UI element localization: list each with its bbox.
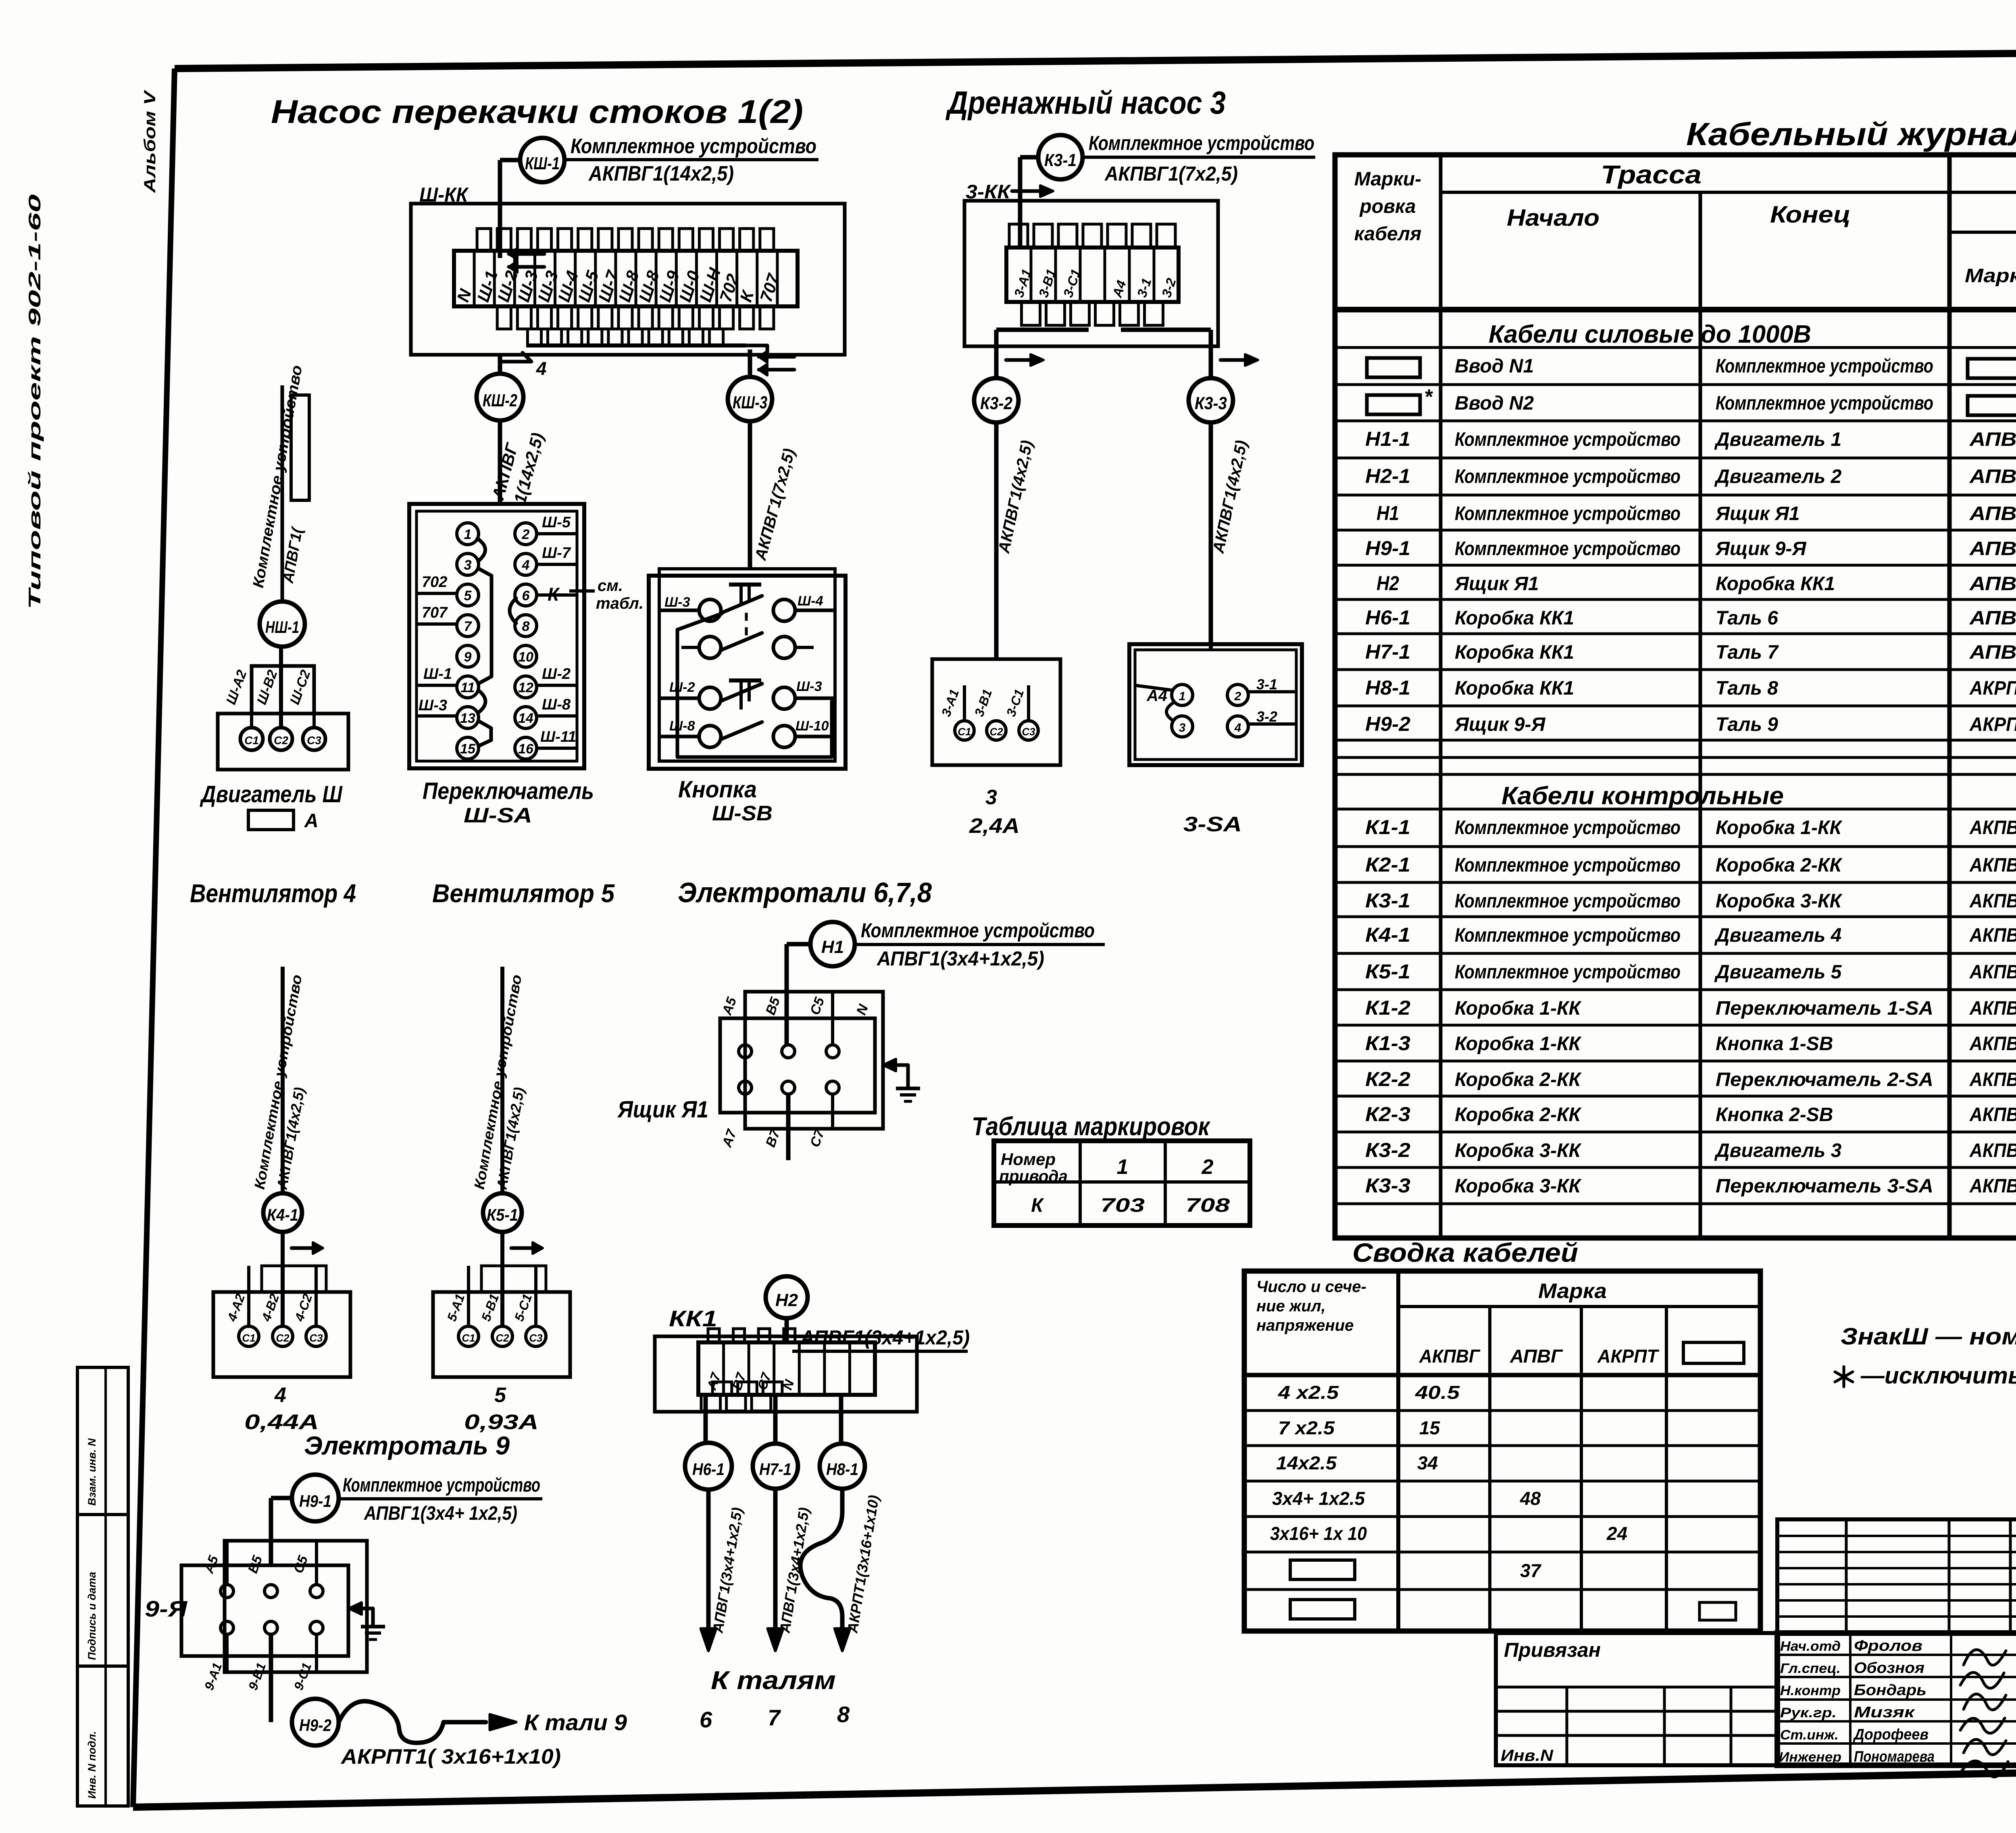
wire Н9-2 to hoist 9 [339, 1701, 627, 1743]
label 9-Я [145, 1596, 187, 1621]
svg-text:Н1: Н1 [821, 937, 844, 957]
svg-text:4: 4 [522, 558, 530, 573]
svg-text:5: 5 [494, 1384, 506, 1407]
cable marker Н2 [766, 1276, 808, 1318]
svg-text:Комплектное устройство: Комплектное устройство [861, 919, 1095, 942]
svg-text:Комплектное устройство: Комплектное устройство [1716, 356, 1933, 377]
svg-text:9-Я: 9-Я [145, 1596, 187, 1621]
switch Ш-SA bridges [477, 539, 516, 746]
marking table grid [994, 1141, 1250, 1225]
svg-text:2: 2 [1202, 1155, 1214, 1179]
cable marker KSH-2 [477, 374, 523, 420]
svg-text:Ящик Я1: Ящик Я1 [617, 1096, 708, 1123]
switch Ш-SA right taps [537, 514, 644, 748]
svg-text:Вентилятор 5: Вентилятор 5 [432, 879, 615, 908]
svg-text:Кнопка: Кнопка [678, 776, 757, 803]
svg-text:Ш-3: Ш-3 [419, 697, 447, 714]
svg-text:А: А [304, 810, 319, 832]
svg-text:Коробка 3-КК: Коробка 3-КК [1455, 1176, 1582, 1197]
motor Ш terminals [240, 728, 325, 750]
svg-text:К тали 9: К тали 9 [524, 1710, 627, 1735]
svg-text:707: 707 [422, 604, 448, 621]
wire to hoist 7 with arrow [768, 1490, 812, 1651]
cable label АКРПТ1 [340, 1745, 561, 1769]
svg-text:К3-2: К3-2 [1365, 1139, 1410, 1161]
svg-text:К2-2: К2-2 [1365, 1068, 1410, 1090]
stamp boxes column [77, 1367, 128, 1806]
svg-text:Кабели контрольные: Кабели контрольные [1502, 782, 1784, 810]
svg-text:Н9-1: Н9-1 [299, 1492, 331, 1511]
svg-text:Коробка КК1: Коробка КК1 [1716, 573, 1835, 595]
svg-text:АКПВГ1(7х2,5): АКПВГ1(7х2,5) [1104, 162, 1238, 185]
svg-text:С2: С2 [274, 734, 288, 747]
arrow at К3-2 wire [1006, 354, 1043, 366]
svg-text:Двигатель Ш: Двигатель Ш [200, 781, 343, 807]
svg-text:ровка: ровка [1359, 196, 1416, 217]
svg-text:Фролов: Фролов [1854, 1637, 1922, 1654]
svg-text:Ввод N2: Ввод N2 [1455, 393, 1534, 414]
switch Ш-SA left taps [417, 574, 457, 716]
svg-text:привода: привода [999, 1167, 1068, 1186]
svg-text:Конец: Конец [1770, 202, 1851, 228]
svg-text:6: 6 [522, 588, 530, 603]
cable marker Н9-1 [292, 1475, 339, 1521]
signature rows [1777, 1633, 2016, 1765]
svg-text:К4-1: К4-1 [1365, 924, 1410, 946]
svg-text:Ш-4: Ш-4 [798, 593, 823, 609]
svg-text:Н9-2: Н9-2 [299, 1716, 331, 1735]
svg-text:Комплектное устройство: Комплектное устройство [1455, 429, 1681, 450]
cable label АПВГ1 under Н2 [792, 1326, 970, 1351]
wire К3-1 to cabinet [1020, 157, 1039, 248]
svg-text:Инв.N: Инв.N [1501, 1747, 1554, 1764]
signature names [1779, 1637, 1935, 1765]
svg-text:1: 1 [1179, 690, 1186, 703]
svg-text:Дорофеев: Дорофеев [1853, 1726, 1929, 1743]
svg-text:АПВГ: АПВГ [1969, 573, 2016, 595]
svg-text:АПВГ: АПВГ [1969, 429, 2016, 450]
svg-text:К3-2: К3-2 [980, 393, 1012, 413]
cable marker НШ-1 [260, 601, 305, 647]
svg-text:АПВГ: АПВГ [1969, 503, 2016, 524]
table title Кабельный журнал [1686, 116, 2016, 152]
section title hoist 9 [304, 1431, 510, 1460]
wire KSH-2 to switch SA [498, 354, 502, 505]
wires КК1 to hoist markers [706, 1395, 841, 1443]
svg-text:С3: С3 [309, 1332, 323, 1344]
svg-text:Комплектное устройство: Комплектное устройство [1455, 855, 1681, 876]
button Ш-SB jumper loop [677, 614, 832, 757]
svg-text:Н7-1: Н7-1 [1365, 641, 1410, 663]
svg-text:К3-1: К3-1 [1044, 150, 1077, 170]
svg-text:Дренажный насос 3: Дренажный насос 3 [946, 85, 1226, 121]
label 3-КК with arrow [966, 181, 1053, 203]
wire 3-SA feed [1209, 644, 1213, 650]
button Ш-SB contacts [699, 596, 795, 747]
svg-text:34: 34 [1417, 1452, 1438, 1473]
cable marker Н1 [810, 922, 855, 966]
svg-text:Н9-2: Н9-2 [1365, 713, 1410, 735]
svg-text:С2: С2 [989, 726, 1003, 738]
svg-text:Коробка 3-КК: Коробка 3-КК [1455, 1140, 1582, 1161]
svg-text:Ш-11: Ш-11 [540, 728, 576, 745]
svg-text:Н9-1: Н9-1 [1365, 537, 1410, 560]
svg-text:15: 15 [1419, 1417, 1441, 1438]
journal table grid [1335, 155, 2016, 1238]
margin caption Album V [141, 89, 159, 193]
wire to hoist 6 with arrow [701, 1490, 746, 1651]
cable marker К5-1 [483, 1193, 522, 1232]
svg-text:3: 3 [985, 786, 997, 809]
svg-text:Пономарева: Пономарева [1854, 1748, 1935, 1765]
svg-text:24: 24 [1606, 1523, 1627, 1544]
svg-text:3-1: 3-1 [1256, 676, 1277, 693]
terminal strip in 3-КК [1006, 224, 1179, 325]
svg-text:Вентилятор 4: Вентилятор 4 [190, 879, 356, 908]
branch tick with mark 4 [500, 353, 547, 379]
svg-text:С2: С2 [276, 1332, 289, 1344]
Ящик Я1 top leads [719, 992, 871, 1045]
svg-text:*: * [1424, 385, 1433, 409]
svg-text:Переключатель: Переключатель [423, 778, 594, 804]
svg-text:14: 14 [518, 711, 533, 726]
cable entry arrows at KSH-3 wire [759, 351, 794, 375]
svg-text:Н.контр: Н.контр [1780, 1683, 1841, 1698]
svg-text:АКПВГ1(14х2,5): АКПВГ1(14х2,5) [588, 162, 734, 185]
svg-text:КШ-3: КШ-3 [733, 393, 767, 412]
9-Я bottom leads [202, 1634, 317, 1722]
svg-text:АКПВГ: АКПВГ [1969, 1069, 2016, 1090]
fan 5 motor box [433, 1292, 570, 1377]
svg-text:Ш-8: Ш-8 [542, 696, 571, 713]
svg-text:Переключатель 1-SA: Переключатель 1-SA [1716, 998, 1933, 1019]
svg-text:Ш-2: Ш-2 [669, 680, 695, 695]
label 3-SA [1183, 813, 1242, 836]
label Кнопка Ш-SB [678, 776, 773, 825]
label Ящик Я1 [617, 1096, 708, 1123]
svg-text:Коробка 2-КК: Коробка 2-КК [1716, 855, 1843, 876]
svg-text:Привязан: Привязан [1504, 1639, 1601, 1661]
terminal cabinet 3-КК box [964, 201, 1218, 346]
wire Н1 to Ящик Я1 [787, 944, 810, 1045]
svg-text:Коробка 1-КК: Коробка 1-КК [1455, 998, 1582, 1019]
svg-text:Бондарь: Бондарь [1854, 1682, 1926, 1699]
svg-text:АКПВГ: АКПВГ [1969, 855, 2016, 876]
svg-text:АПВГ: АПВГ [1969, 642, 2016, 663]
summary table grid [1244, 1271, 1760, 1631]
svg-text:Число и сече-: Число и сече- [1256, 1278, 1366, 1296]
svg-text:10: 10 [518, 649, 533, 665]
feeder stub fan 5 [471, 967, 528, 1193]
svg-text:АКПВГ: АКПВГ [1969, 961, 2016, 983]
journal table headers [1354, 159, 2016, 326]
svg-text:К: К [548, 584, 560, 605]
svg-text:С2: С2 [496, 1332, 509, 1344]
cable label on К3-2 wire [995, 439, 1036, 555]
table title Сводка кабелей [1352, 1238, 1578, 1267]
cable marker Н9-2 [292, 1699, 339, 1746]
cable marker К3-3 [1189, 378, 1233, 422]
svg-text:КШ-2: КШ-2 [483, 391, 517, 410]
svg-text:2,4А: 2,4А [969, 814, 1020, 838]
motor Ш leads [223, 647, 314, 728]
svg-text:Кабели силовые до 1000В: Кабели силовые до 1000В [1489, 320, 1811, 348]
svg-text:Номер: Номер [1001, 1150, 1056, 1169]
svg-text:Ввод N1: Ввод N1 [1455, 356, 1534, 377]
wire Н9-1 to box 9-Я [271, 1498, 292, 1564]
svg-text:2: 2 [1234, 690, 1241, 703]
cable marker KSH-3 [728, 377, 772, 421]
svg-text:6: 6 [700, 1707, 712, 1732]
svg-text:Кнопка 1-SB: Кнопка 1-SB [1716, 1033, 1833, 1055]
svg-text:АПВГ1(3х4+1х2,5): АПВГ1(3х4+1х2,5) [876, 947, 1044, 970]
svg-text:703: 703 [1100, 1195, 1145, 1216]
svg-text:К2-1: К2-1 [1365, 853, 1410, 876]
svg-text:Н1-1: Н1-1 [1365, 428, 1410, 450]
svg-text:7: 7 [768, 1705, 781, 1730]
journal section power cables [1489, 320, 1811, 348]
svg-text:КШ-1: КШ-1 [525, 154, 560, 173]
motor 3 terminals [955, 721, 1038, 740]
svg-text:С1: С1 [244, 734, 259, 747]
svg-text:Комплектное устройство: Комплектное устройство [1089, 132, 1314, 154]
svg-text:3: 3 [464, 558, 472, 573]
svg-text:Ш-SB: Ш-SB [712, 802, 773, 825]
fan 4 rating [244, 1384, 319, 1434]
svg-text:напряжение: напряжение [1256, 1317, 1354, 1334]
svg-text:Электроталь 9: Электроталь 9 [304, 1431, 510, 1460]
svg-text:Типовой проект 902-1-60: Типовой проект 902-1-60 [25, 194, 44, 610]
svg-text:Ш-2: Ш-2 [542, 666, 571, 682]
button Ш-SB box [649, 569, 846, 769]
svg-text:АКПВГ: АКПВГ [1419, 1346, 1481, 1367]
wire К3-2 to motor 3 [994, 422, 999, 659]
svg-text:АПВГ: АПВГ [1969, 466, 2016, 487]
svg-text:708: 708 [1185, 1195, 1230, 1216]
svg-text:С3: С3 [1022, 726, 1035, 738]
svg-text:Комплектное устройство: Комплектное устройство [1455, 890, 1681, 912]
selector 3-SA taps [1135, 676, 1296, 725]
selector 3-SA bridge [1166, 702, 1174, 721]
svg-text:—исключить при питании по: —исключить при питании по одному вводу [1860, 1363, 2016, 1389]
svg-text:К талям: К талям [711, 1666, 836, 1695]
svg-text:Ящик Я1: Ящик Я1 [1454, 573, 1539, 595]
svg-text:1: 1 [464, 527, 472, 542]
svg-text:Комплектное устройство: Комплектное устройство [571, 135, 816, 158]
svg-text:3х4+ 1х2.5: 3х4+ 1х2.5 [1272, 1488, 1365, 1509]
svg-text:АКПВГ: АКПВГ [1969, 890, 2016, 912]
motor Ш frame mark [248, 810, 319, 832]
svg-text:7: 7 [464, 619, 473, 634]
svg-text:Н2-1: Н2-1 [1365, 465, 1410, 487]
journal table data [1365, 356, 2016, 1197]
svg-text:Коробка 3-КК: Коробка 3-КК [1716, 890, 1843, 912]
svg-text:Комплектное устройство: Комплектное устройство [1455, 961, 1681, 983]
svg-text:С3: С3 [307, 734, 321, 747]
svg-text:Комплектное устройство: Комплектное устройство [1455, 538, 1681, 560]
svg-text:Таль 6: Таль 6 [1716, 608, 1778, 629]
button Ш-SB leads [659, 610, 835, 737]
svg-text:702: 702 [422, 574, 447, 591]
svg-text:Ст.инж.: Ст.инж. [1780, 1727, 1839, 1743]
motor 3 box [932, 659, 1060, 765]
svg-text:АКПВГ: АКПВГ [1969, 1176, 2016, 1197]
label Ш-КК [419, 183, 469, 206]
svg-text:Инв. N подл.: Инв. N подл. [86, 1731, 98, 1799]
svg-text:Коробка 1-КК: Коробка 1-КК [1716, 817, 1843, 838]
svg-text:Н8-1: Н8-1 [1365, 676, 1410, 699]
svg-text:4: 4 [1234, 721, 1241, 734]
terminal strip in КК1 [698, 1329, 875, 1411]
fan 5 rating [464, 1384, 539, 1434]
svg-text:4: 4 [536, 358, 547, 379]
Ящик Я1 terminals [739, 1045, 839, 1094]
svg-text:7 х2.5: 7 х2.5 [1278, 1417, 1335, 1438]
box 9-Я [181, 1541, 367, 1672]
svg-text:табл.: табл. [596, 595, 644, 612]
svg-text:Кабельный журнал: Кабельный журнал [1686, 116, 2016, 152]
relay box КК1 [655, 1336, 917, 1412]
wire to hoist 8 with loop and arrow [800, 1490, 882, 1651]
cable marker Н8-1 [820, 1444, 865, 1489]
svg-text:Комплектное устройство: Комплектное устройство [1716, 393, 1933, 414]
svg-text:Коробка 2-КК: Коробка 2-КК [1455, 1104, 1582, 1126]
svg-text:Ящик Я1: Ящик Я1 [1715, 503, 1800, 524]
wire Ш-КК to KSH-3 [526, 345, 767, 377]
feeder label Комплектное устройство (К3-1) [1083, 132, 1315, 185]
switch Ш-SA contacts [457, 523, 537, 759]
cable entry arrows at KSH-1 wire [509, 248, 544, 273]
svg-text:НШ-1: НШ-1 [265, 618, 299, 637]
button Ш-SB actuator bottom [729, 680, 761, 709]
svg-text:ЗнакШ — номер привода: ЗнакШ — номер привода [1841, 1323, 2016, 1350]
svg-text:13: 13 [460, 711, 475, 726]
feeder label Комплектное устройство (Н9-1) [338, 1475, 542, 1524]
9-Я terminals [221, 1585, 323, 1634]
fan 5 terminals [458, 1326, 546, 1346]
svg-text:4: 4 [274, 1384, 286, 1407]
svg-text:К5-1: К5-1 [1365, 960, 1410, 983]
svg-text:Ш-5: Ш-5 [542, 514, 571, 531]
svg-text:Н2: Н2 [775, 1290, 798, 1310]
svg-text:АПВГ: АПВГ [1969, 608, 2016, 629]
svg-text:Альбом V: Альбом V [141, 89, 159, 193]
terminal cabinet Ш-КК box [411, 204, 845, 355]
svg-text:АКПВГ: АКПВГ [1969, 1104, 2016, 1126]
title block main frame [1777, 1633, 2016, 1765]
label КК1 [669, 1306, 717, 1331]
svg-text:Коробка КК1: Коробка КК1 [1455, 642, 1574, 663]
svg-text:К: К [1031, 1195, 1044, 1216]
svg-text:Инженер: Инженер [1779, 1750, 1841, 1765]
9-Я top leads [201, 1541, 317, 1585]
svg-text:АПВГ: АПВГ [1510, 1346, 1563, 1367]
code table upper [1777, 1519, 2016, 1633]
note asterisk [1835, 1363, 2016, 1389]
svg-text:9: 9 [464, 649, 472, 665]
svg-text:1: 1 [1117, 1155, 1129, 1179]
svg-text:Комплектное устройство: Комплектное устройство [1455, 817, 1681, 838]
svg-text:АПВГ: АПВГ [1969, 538, 2016, 560]
summary table headers [1256, 1278, 1744, 1367]
svg-text:Ш-1: Ш-1 [423, 666, 452, 682]
svg-text:АКПВГ: АКПВГ [1969, 817, 2016, 838]
svg-text:К3-3: К3-3 [1195, 393, 1227, 413]
wire KSH-1 to switch cabinet [500, 160, 521, 258]
svg-text:АКРПТ: АКРПТ [1969, 714, 2016, 735]
svg-text:Таль 7: Таль 7 [1716, 642, 1779, 663]
svg-text:Комплектное устройство: Комплектное устройство [1455, 925, 1681, 946]
svg-text:Марка: Марка [1538, 1280, 1607, 1303]
svg-text:16: 16 [518, 741, 534, 757]
cable marker К3-2 [974, 378, 1018, 422]
svg-text:Сводка кабелей: Сводка кабелей [1352, 1238, 1578, 1267]
svg-text:К3-3: К3-3 [1365, 1174, 1410, 1197]
svg-text:3-SA: 3-SA [1183, 813, 1242, 836]
svg-text:Обозноя: Обозноя [1854, 1660, 1924, 1677]
svg-text:АПВГ1(3х4+ 1х2,5): АПВГ1(3х4+ 1х2,5) [364, 1503, 517, 1524]
ground at 9-Я [349, 1602, 385, 1640]
svg-text:Взам. инв. N: Взам. инв. N [86, 1438, 98, 1506]
section title fan 5 [432, 879, 615, 908]
svg-text:Переключатель 2-SA: Переключатель 2-SA [1716, 1069, 1933, 1090]
svg-text:0,44А: 0,44А [244, 1411, 319, 1434]
svg-text:Ш-3: Ш-3 [664, 595, 690, 610]
button Ш-SB actuator top [729, 585, 761, 637]
svg-text:Насос перекачки стоков 1(2): Насос перекачки стоков 1(2) [271, 94, 803, 130]
svg-text:АКРПТ: АКРПТ [1969, 678, 2016, 699]
cable marker KSH-1 [520, 138, 564, 182]
svg-text:Ш-7: Ш-7 [542, 545, 571, 562]
Ящик Я1 bottom leads [719, 1094, 833, 1160]
section title pump 1(2) [271, 94, 803, 130]
svg-text:48: 48 [1520, 1488, 1541, 1509]
table title Таблица маркировок [972, 1112, 1211, 1141]
arrow at К4-1 [292, 1242, 323, 1254]
wire К3-3 to 3-SA [1209, 422, 1213, 644]
svg-text:5: 5 [464, 588, 472, 603]
svg-text:Ш-10: Ш-10 [796, 718, 829, 734]
svg-text:К1-1: К1-1 [1365, 816, 1410, 838]
svg-text:14х2.5: 14х2.5 [1276, 1452, 1337, 1473]
feeder label Комплектное устройство (Н1) [856, 919, 1105, 970]
svg-text:АКПВГ: АКПВГ [1969, 925, 2016, 946]
svg-text:Подпись и дата: Подпись и дата [86, 1572, 98, 1660]
ground at Ящик Я1 [883, 1059, 920, 1101]
arrow at К5-1 [511, 1242, 543, 1254]
svg-text:Двигатель 2: Двигатель 2 [1714, 466, 1842, 487]
section title hoists 678 [678, 877, 932, 908]
svg-text:Переключатель 3-SA: Переключатель 3-SA [1716, 1176, 1933, 1197]
svg-text:0,93А: 0,93А [464, 1411, 539, 1434]
summary table data [1270, 1382, 1736, 1620]
svg-text:Двигатель 3: Двигатель 3 [1714, 1140, 1842, 1161]
svg-text:4 х2.5: 4 х2.5 [1278, 1382, 1339, 1403]
svg-text:Двигатель 4: Двигатель 4 [1714, 925, 1841, 946]
svg-text:А4: А4 [1146, 687, 1167, 705]
svg-text:АКРПТ1( 3х16+1х10): АКРПТ1( 3х16+1х10) [340, 1745, 561, 1769]
motor 3 leads [939, 685, 1029, 721]
wire Н2 to КК1 [785, 1318, 789, 1342]
svg-text:см.: см. [598, 577, 623, 595]
cable marker Н6-1 [685, 1443, 732, 1490]
svg-text:С1: С1 [242, 1332, 255, 1344]
button Ш-SB contact labels [664, 593, 829, 734]
motor Двигатель Ш box [218, 714, 348, 770]
arrow at К3-3 wire [1220, 354, 1258, 366]
cable label on KSH-2 wire [488, 431, 547, 506]
svg-text:С3: С3 [529, 1332, 543, 1344]
